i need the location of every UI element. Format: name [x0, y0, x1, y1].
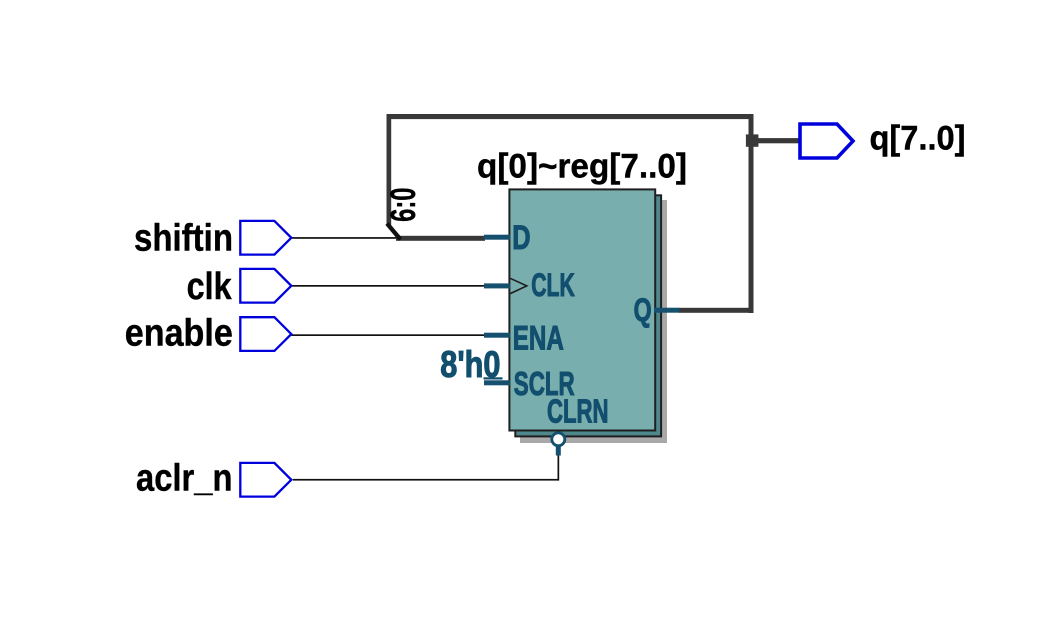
- register U1 back layer: [515, 195, 661, 436]
- junction on bus: [746, 134, 759, 146]
- svg-text:clk: clk: [187, 266, 233, 308]
- svg-text:enable: enable: [125, 312, 233, 354]
- clock chevron: [510, 278, 527, 293]
- wire: left vertical bus: [387, 114, 392, 225]
- input port aclr_n: [240, 463, 291, 497]
- svg-text:q[0]~reg[7..0]: q[0]~reg[7..0]: [477, 147, 687, 185]
- wire: Q output horizontal bus: [679, 308, 754, 313]
- pin stub SCLR: [484, 380, 510, 385]
- pin stub Q: [654, 308, 680, 313]
- pin stub ENA: [484, 333, 510, 338]
- svg-text:6:0: 6:0: [383, 188, 423, 222]
- wire: thick bus into D pin: [396, 236, 485, 241]
- wire: clk to CLK pin: [291, 285, 484, 287]
- svg-text:CLRN: CLRN: [547, 394, 609, 431]
- wire: junction to output port: [754, 138, 799, 143]
- svg-text:CLK: CLK: [531, 267, 575, 303]
- wire: top horizontal bus: [387, 114, 754, 119]
- svg-text:D: D: [512, 219, 530, 257]
- svg-text:shiftin: shiftin: [134, 218, 233, 260]
- svg-text:aclr_n: aclr_n: [136, 458, 233, 500]
- svg-text:Q: Q: [634, 292, 652, 328]
- wire: enable to ENA pin: [291, 334, 484, 336]
- pin stub D: [484, 235, 510, 240]
- wire: aclr_n vertical to bubble: [558, 455, 560, 481]
- register U1 shadow: [520, 200, 667, 443]
- constant underline: [484, 377, 503, 379]
- wire: aclr_n horizontal: [293, 479, 559, 481]
- wire: shiftin to bus slash: [291, 237, 399, 239]
- bus rip slash: [387, 224, 401, 240]
- register U1 body: [509, 189, 655, 430]
- pin stub CLK: [484, 283, 510, 288]
- input port enable: [240, 317, 291, 351]
- wire: right vertical bus: [749, 114, 754, 313]
- input port shiftin: [240, 221, 291, 255]
- CLRN inverter bubble: [552, 433, 565, 446]
- svg-text:q[7..0]: q[7..0]: [870, 120, 966, 158]
- CLRN bubble stub: [556, 446, 561, 455]
- svg-text:ENA: ENA: [513, 319, 564, 357]
- input port clk: [240, 269, 291, 303]
- output port q[7..0]: [800, 124, 853, 158]
